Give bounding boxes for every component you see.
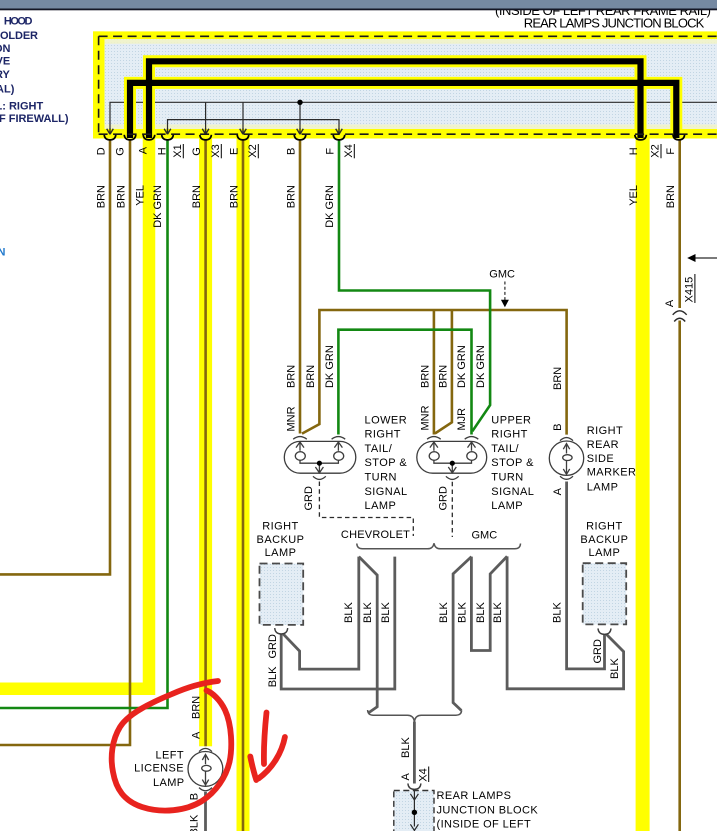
svg-text:A: A <box>138 146 150 154</box>
svg-text:BLK: BLK <box>438 602 450 623</box>
highlighted right YEL wire H <box>636 134 650 831</box>
svg-text:TAIL/: TAIL/ <box>365 443 393 455</box>
wire DK GRN X4-F to upper tail lamp MJR <box>339 141 490 432</box>
svg-text:SIGNAL: SIGNAL <box>491 486 534 498</box>
svg-text:LAMP: LAMP <box>153 777 185 789</box>
right backup lamp cup <box>598 628 611 634</box>
svg-text:MJR: MJR <box>456 408 468 431</box>
red hand-drawn arrow <box>264 713 267 765</box>
svg-text:D: D <box>95 147 107 155</box>
svg-text:LAMP: LAMP <box>587 482 619 494</box>
highlighted YEL wire X3 (license lamp circuit highlight) <box>199 134 212 746</box>
svg-text:H: H <box>156 147 168 155</box>
svg-text:LAMP: LAMP <box>265 547 297 559</box>
wire BRN G: down and left off page <box>0 141 130 746</box>
thick black wire A-to-H with yellow halo <box>149 61 641 137</box>
junction dot on upper feed line <box>297 100 302 105</box>
wire DK GRN net joining tail lamp right pins <box>338 330 471 435</box>
svg-text:A: A <box>400 773 412 781</box>
svg-text:X2: X2 <box>650 144 662 157</box>
wire BRN net joining tail lamps and side marker (GMC) <box>302 310 567 435</box>
text LOWER RIGHT TAIL/STOP & TURN SIGNAL LAMP <box>365 414 408 512</box>
wire BRN X2-E straight down off page <box>242 141 245 831</box>
svg-text:CHEVROLET: CHEVROLET <box>341 529 410 541</box>
wire BRN drop to upper tail lamp MNR <box>433 310 436 435</box>
brace over black wire bundle (CHEVROLET/GMC) <box>357 543 521 549</box>
thick black wire G (left) to F (right) <box>130 83 676 138</box>
svg-text:A: A <box>552 487 564 495</box>
svg-text:G: G <box>191 147 203 156</box>
underlines for connector labels X1 X3 X2 X4 X2r <box>183 144 661 158</box>
svg-text:LICENSE: LICENSE <box>134 763 184 775</box>
svg-text:(INSIDE OF LEFT: (INSIDE OF LEFT <box>437 818 532 830</box>
wire BLK from bottom brace to rear lamps junction block X4-A <box>413 722 416 784</box>
svg-text:YEL: YEL <box>628 185 640 206</box>
inline connector X415-A on right BRN wire <box>673 311 687 322</box>
svg-text:X2: X2 <box>247 144 259 157</box>
svg-text:UPPER: UPPER <box>491 414 531 426</box>
svg-text:GRD: GRD <box>437 486 449 511</box>
wire BRN D: down and left off page <box>0 141 110 575</box>
svg-text:G: G <box>115 147 127 156</box>
svg-text:BRN: BRN <box>229 185 241 208</box>
svg-text:LAMP: LAMP <box>589 547 621 559</box>
svg-text:F FIREWALL): F FIREWALL) <box>0 113 69 125</box>
wire BLK GMC U loop in bundle <box>471 556 507 650</box>
thin feed line lower (inside block) <box>168 120 340 128</box>
wire BRN B to lower right tail lamp MNR <box>299 141 302 434</box>
wire BLK side marker A to right backup lamp <box>567 482 605 669</box>
lamp LOWER RIGHT TAIL/STOP & TURN SIGNAL LAMP <box>284 437 356 480</box>
svg-text:REAR: REAR <box>587 439 619 451</box>
text LEFT LICENSE LAMP <box>134 750 184 789</box>
backup lamp GRD/BLK labels <box>267 634 621 687</box>
svg-text:VE: VE <box>0 55 10 67</box>
svg-text:LOWER: LOWER <box>365 414 408 426</box>
svg-text:L: RIGHT: L: RIGHT <box>0 100 43 112</box>
svg-text:DK GRN: DK GRN <box>152 185 164 228</box>
svg-text:DK GRN: DK GRN <box>324 185 336 228</box>
wire BLK right backup to brace (via U) <box>507 556 623 688</box>
bottom junction block internal wire with arrows and junction dot <box>410 791 418 831</box>
svg-text:BRN: BRN <box>286 365 298 388</box>
wire BLK left backup to brace apex <box>283 557 358 670</box>
svg-text:IAL): IAL) <box>0 84 15 96</box>
red hand-drawn circle around left license lamp <box>112 681 232 811</box>
svg-text:BRN: BRN <box>116 185 128 208</box>
text UPPER RIGHT TAIL/STOP & TURN SIGNAL LAMP <box>491 414 534 512</box>
svg-text:TURN: TURN <box>365 472 397 484</box>
lamp wire labels (colour) <box>286 345 564 390</box>
svg-text:A: A <box>664 299 676 307</box>
svg-text:MNR: MNR <box>285 406 297 431</box>
svg-text:RIGHT: RIGHT <box>365 429 401 441</box>
svg-text:DK GRN: DK GRN <box>324 345 336 388</box>
svg-text:GMC: GMC <box>489 269 515 281</box>
text RIGHT REAR SIDE MARKER LAMP <box>587 425 637 493</box>
svg-text:BRN: BRN <box>665 185 677 208</box>
lamp RIGHT REAR SIDE MARKER LAMP <box>549 438 583 480</box>
lamp UPPER RIGHT TAIL/STOP & TURN SIGNAL LAMP <box>417 437 487 480</box>
svg-text:TURN: TURN <box>491 472 523 484</box>
svg-text:X415: X415 <box>684 277 696 303</box>
wire BLK GMC diagonal to bottom brace <box>453 557 471 711</box>
svg-text:LAMP: LAMP <box>491 500 523 512</box>
svg-text:BRN: BRN <box>96 185 108 208</box>
REAR LAMPS JUNCTION BLOCK (bottom) box <box>394 791 434 831</box>
svg-text:LAMP: LAMP <box>365 500 397 512</box>
svg-text:RIGHT: RIGHT <box>491 429 527 441</box>
annotation arrow from right edge <box>691 257 717 259</box>
svg-text:REAR LAMPS JUNCTION BLOCK: REAR LAMPS JUNCTION BLOCK <box>524 15 705 30</box>
RIGHT BACKUP LAMP box (right) <box>583 563 627 624</box>
svg-text:BRN: BRN <box>191 185 203 208</box>
svg-text:YEL: YEL <box>134 185 146 206</box>
text REAR LAMPS JUNCTION BLOCK (INSIDE OF LEFT <box>437 790 539 830</box>
svg-text:RIGHT: RIGHT <box>587 425 623 437</box>
license lamp labels <box>189 696 203 831</box>
svg-text:RIGHT: RIGHT <box>586 521 622 533</box>
svg-text:STOP &: STOP & <box>491 457 534 469</box>
lamp LEFT LICENSE LAMP <box>188 748 223 790</box>
svg-text:F: F <box>325 148 337 155</box>
svg-text:BLK: BLK <box>267 666 279 687</box>
terminal arrows inside block <box>107 128 343 134</box>
svg-text:E: E <box>229 148 241 155</box>
svg-text:GRD: GRD <box>267 634 279 659</box>
svg-text:ON: ON <box>0 43 11 55</box>
svg-text:BRN: BRN <box>191 696 203 719</box>
terminal pin letters at junction block <box>95 144 677 157</box>
cup into rear lamps junction block (bottom) <box>408 783 421 789</box>
junction block dashed border <box>99 36 717 134</box>
BLK labels on ground bundle <box>343 602 563 623</box>
svg-text:HOOD: HOOD <box>4 15 33 27</box>
left cut-off navy text column <box>0 15 69 125</box>
svg-text:MNR: MNR <box>420 405 432 430</box>
svg-text:B: B <box>189 793 201 800</box>
svg-text:BRN: BRN <box>305 365 317 388</box>
svg-text:MARKER: MARKER <box>587 467 637 479</box>
svg-text:B: B <box>552 424 564 431</box>
wire BRN diagonal drop to upper tail lamp MNR <box>435 310 452 434</box>
wire DK GRN X1-H: down and left off page <box>0 141 168 709</box>
left backup lamp cup <box>275 628 288 634</box>
svg-text:A: A <box>191 731 203 739</box>
wire colour labels below junction block <box>96 185 678 228</box>
svg-text:BLK: BLK <box>492 602 504 623</box>
wire BRN right F down off page <box>678 141 681 309</box>
rear lamps junction block: blue fill <box>105 39 717 129</box>
svg-text:BRN: BRN <box>552 367 564 390</box>
RIGHT BACKUP LAMP box (left) <box>260 564 304 625</box>
rear lamps junction block: yellow highlight outline <box>93 31 717 138</box>
svg-text:DK GRN: DK GRN <box>475 345 487 388</box>
highlighted wire X2-E <box>237 134 250 831</box>
svg-text:OLDER: OLDER <box>0 30 38 42</box>
svg-text:BLK: BLK <box>552 602 564 623</box>
svg-text:BRN: BRN <box>437 365 449 388</box>
text RIGHT BACKUP LAMP (right) <box>580 521 628 560</box>
svg-text:GRD: GRD <box>303 486 315 511</box>
svg-text:BLK: BLK <box>362 602 374 623</box>
bottom BLK / A / X4 labels <box>400 737 430 782</box>
svg-text:BLK: BLK <box>456 602 468 623</box>
wire BLK below left license lamp <box>204 792 207 831</box>
svg-text:F: F <box>665 148 677 155</box>
svg-text:H: H <box>628 147 640 155</box>
top slate bar <box>0 0 717 9</box>
lamp pin labels <box>285 405 564 510</box>
svg-text:RY: RY <box>0 69 11 81</box>
text RIGHT BACKUP LAMP (left) <box>257 521 305 560</box>
svg-text:BLK: BLK <box>609 658 621 679</box>
svg-text:B: B <box>286 148 298 155</box>
svg-text:BLK: BLK <box>400 737 412 758</box>
yellow highlighted YEL wire A: down and left off page <box>0 134 149 689</box>
wire BLK left backup GRD to brace <box>281 557 395 689</box>
thin feed line upper (inside block) <box>110 102 717 128</box>
svg-text:X4: X4 <box>343 144 355 157</box>
terminal cups at junction block row <box>104 135 684 140</box>
svg-text:GMC: GMC <box>472 530 498 542</box>
X415 / A labels on right wire <box>664 277 696 307</box>
svg-text:BLK: BLK <box>343 602 355 623</box>
svg-text:X1: X1 <box>172 144 184 157</box>
wire BLK chevrolet diagonal to bottom brace <box>359 557 377 713</box>
svg-text:SIDE: SIDE <box>587 453 614 465</box>
svg-text:N: N <box>0 246 6 258</box>
svg-text:LEFT: LEFT <box>156 750 185 762</box>
svg-text:TAIL/: TAIL/ <box>491 443 519 455</box>
svg-text:DK GRN: DK GRN <box>456 345 468 388</box>
svg-text:BLK: BLK <box>189 814 201 831</box>
svg-text:RIGHT: RIGHT <box>262 521 298 533</box>
svg-text:BRN: BRN <box>286 185 298 208</box>
svg-text:X4: X4 <box>418 768 430 781</box>
dashed GRD wire from lower tail lamp <box>319 482 413 537</box>
svg-text:SIGNAL: SIGNAL <box>365 486 408 498</box>
bottom brace gathering black wires <box>368 710 462 721</box>
svg-text:BLK: BLK <box>380 602 392 623</box>
svg-text:GRD: GRD <box>592 639 604 664</box>
svg-text:BLK: BLK <box>475 602 487 623</box>
svg-text:BACKUP: BACKUP <box>257 534 305 546</box>
dashed GRD wire from upper tail lamp <box>451 482 453 537</box>
thick black wire A (left) to H (right) <box>149 61 641 138</box>
svg-text:BRN: BRN <box>420 365 432 388</box>
svg-text:JUNCTION BLOCK: JUNCTION BLOCK <box>437 805 539 817</box>
svg-text:STOP &: STOP & <box>365 457 408 469</box>
svg-text:BACKUP: BACKUP <box>580 534 628 546</box>
svg-text:REAR LAMPS: REAR LAMPS <box>437 790 512 802</box>
svg-text:X3: X3 <box>210 144 222 157</box>
wire BRN X3-G to left license lamp <box>204 141 207 747</box>
